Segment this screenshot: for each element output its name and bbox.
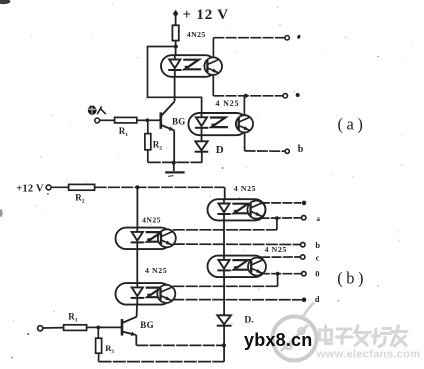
svg-text:4N25: 4N25 <box>187 30 206 39</box>
svg-text:D.: D. <box>244 315 253 325</box>
svg-text:+12 V: +12 V <box>16 183 44 194</box>
svg-text:b: b <box>315 240 320 250</box>
svg-text:c: c <box>316 253 320 263</box>
svg-text:4 N25: 4 N25 <box>216 99 240 108</box>
svg-text:BG: BG <box>172 117 186 127</box>
svg-text:4N25: 4N25 <box>142 216 161 225</box>
svg-text:(b): (b) <box>337 269 367 288</box>
svg-text:www.elecfans.com: www.elecfans.com <box>316 349 421 361</box>
svg-text:(a): (a) <box>338 114 367 133</box>
svg-text:BG: BG <box>140 320 154 330</box>
svg-text:0: 0 <box>315 269 319 279</box>
svg-text:a: a <box>317 215 321 223</box>
svg-text:+ 12 V: + 12 V <box>183 7 229 23</box>
svg-text:D: D <box>216 144 224 156</box>
svg-text:4 N25: 4 N25 <box>145 266 167 275</box>
svg-text:ybx8.cn: ybx8.cn <box>244 330 312 350</box>
svg-text:d: d <box>315 294 320 304</box>
svg-text:4 N25: 4 N25 <box>265 245 287 254</box>
svg-text:4 N25: 4 N25 <box>234 184 256 193</box>
svg-text:b: b <box>298 144 304 155</box>
